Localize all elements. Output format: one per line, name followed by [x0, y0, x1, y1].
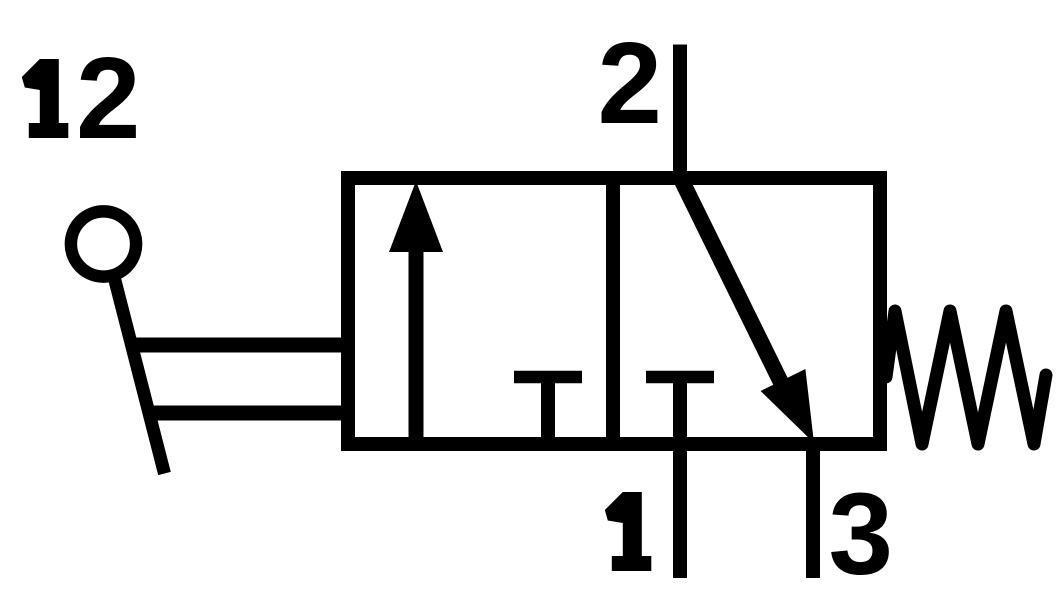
- diagonal flow path arrow head: [761, 369, 814, 443]
- lever arm: [111, 265, 165, 474]
- flow arrow stem (left chamber): [409, 243, 424, 451]
- port 1 line: [673, 377, 687, 578]
- svg-text:2: 2: [76, 33, 141, 163]
- blocked port symbol T (right chamber): [646, 371, 714, 384]
- position divider: [606, 178, 620, 444]
- svg-text:3: 3: [829, 469, 894, 599]
- port label 1: [605, 492, 652, 571]
- diagonal flow path stem (right chamber): [680, 177, 797, 415]
- valve body frame: [348, 178, 880, 444]
- lever linkage top bar: [129, 338, 355, 353]
- return spring: [886, 311, 1046, 444]
- port 3 line: [806, 444, 820, 578]
- port label 12: [22, 33, 141, 163]
- svg-text:2: 2: [598, 18, 663, 148]
- lever linkage bottom bar: [146, 406, 355, 421]
- lever knob: [71, 211, 136, 276]
- port 2 line: [673, 45, 687, 186]
- blocked port symbol T (left chamber): [514, 377, 582, 451]
- flow arrow head (left chamber): [389, 181, 443, 252]
